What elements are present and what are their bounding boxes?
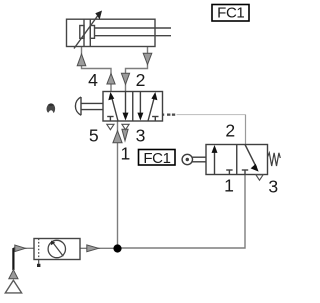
svg-text:5: 5 — [89, 126, 99, 146]
svg-text:1: 1 — [121, 144, 131, 164]
svg-text:FC1: FC1 — [217, 5, 244, 22]
svg-text:2: 2 — [225, 121, 235, 141]
svg-text:4: 4 — [88, 70, 98, 90]
svg-text:1: 1 — [224, 175, 234, 195]
svg-text:3: 3 — [136, 126, 146, 146]
svg-text:FC1: FC1 — [143, 150, 170, 167]
svg-text:2: 2 — [136, 70, 146, 90]
svg-text:3: 3 — [268, 177, 278, 197]
